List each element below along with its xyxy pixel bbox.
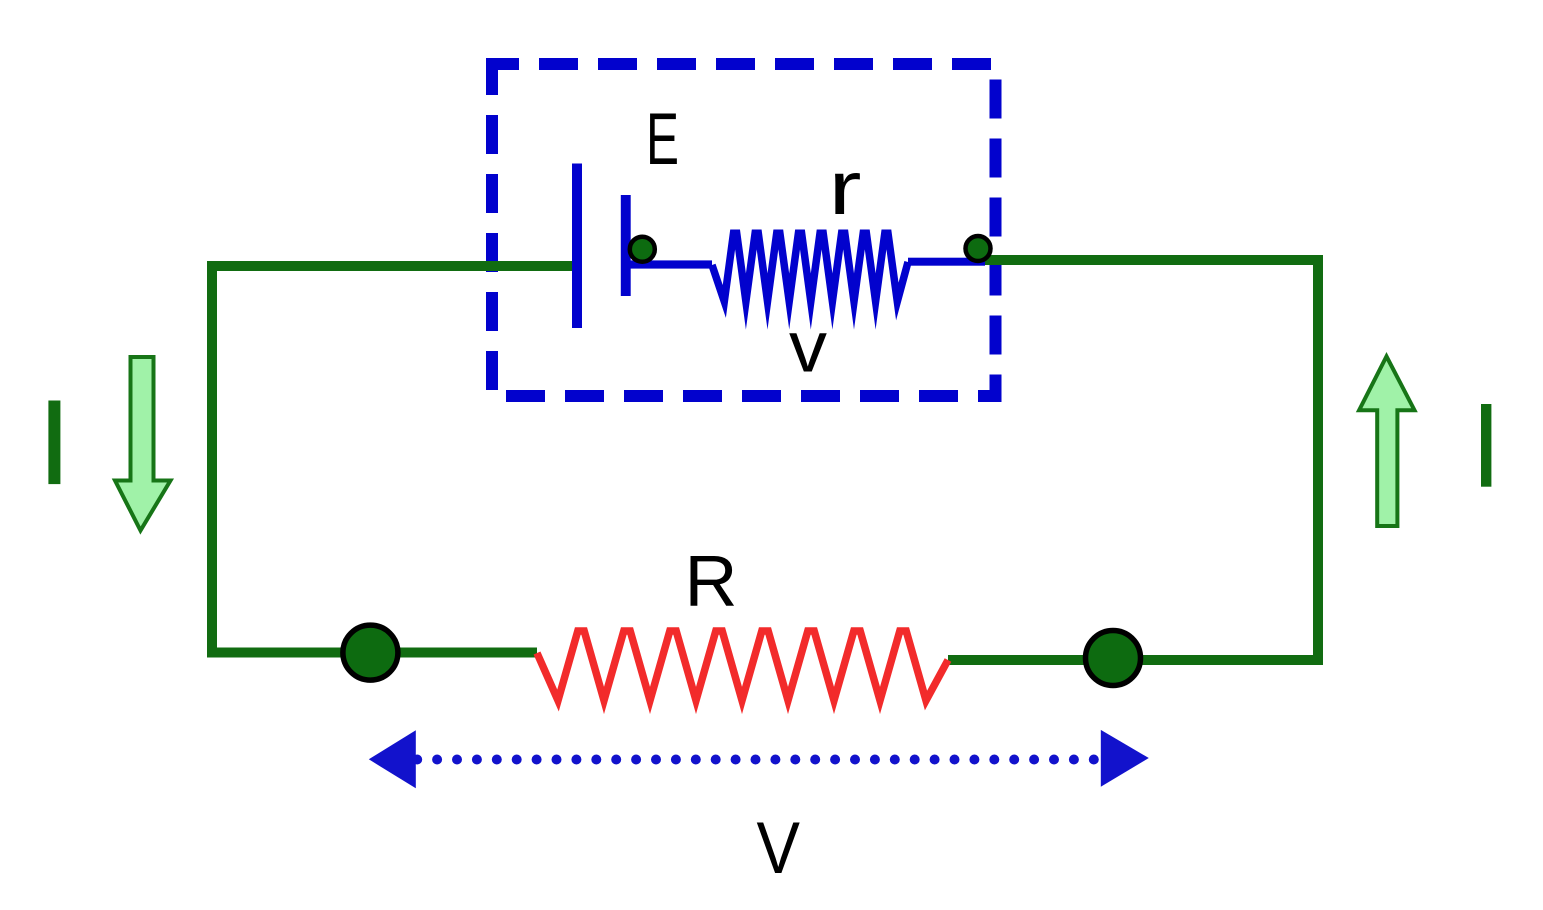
- voltage arrow right head: [1101, 730, 1149, 787]
- battery long plate: [572, 164, 582, 329]
- svg-text:r: r: [829, 146, 862, 231]
- node terminal right (small dot): [966, 236, 991, 261]
- svg-text:R: R: [685, 541, 738, 622]
- node A (big dot left): [343, 625, 398, 680]
- svg-text:V: V: [757, 808, 801, 889]
- current arrow up (right): [1359, 356, 1414, 526]
- wire left loop (top-left, left, bottom-left): [212, 266, 572, 653]
- resistor R zigzag: [537, 631, 948, 701]
- svg-text:v: v: [789, 308, 827, 388]
- label I left: [48, 401, 60, 485]
- battery short plate: [621, 195, 631, 296]
- voltage arrow left head: [369, 730, 416, 788]
- node B (big dot right): [1086, 631, 1141, 686]
- label I right: [1481, 404, 1491, 487]
- voltage arrow dotted line: [412, 755, 422, 765]
- battery enclosure dashed box: [492, 64, 996, 396]
- resistor r zigzag: [712, 233, 908, 301]
- current arrow down (left): [115, 357, 171, 531]
- svg-text:E: E: [646, 99, 679, 180]
- wire resistor r to node: [908, 258, 985, 266]
- wire right loop (top-right, right, bottom-right): [948, 260, 1318, 660]
- wire battery to resistor r: [628, 260, 712, 268]
- node terminal left (small dot): [630, 237, 655, 262]
